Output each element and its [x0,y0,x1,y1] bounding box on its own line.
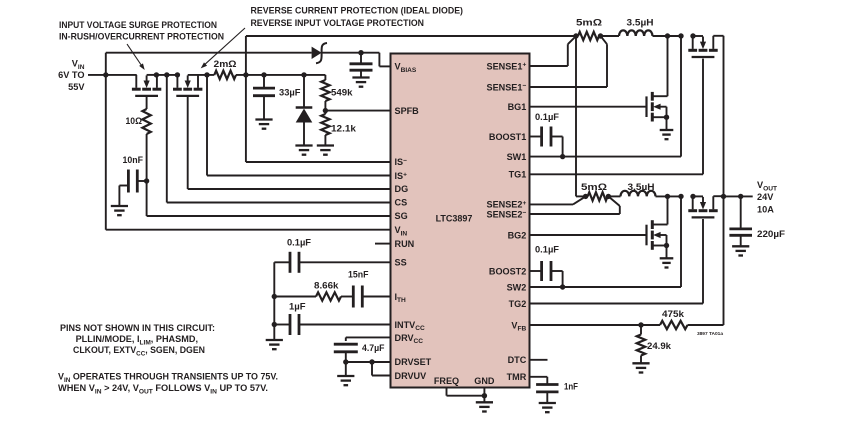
wire SENSE2+ kelvin [530,196,586,204]
svg-text:SENSE1−: SENSE1− [487,82,527,92]
wire IS+ net [207,75,391,176]
node sense resistor R6 left junction [573,33,578,38]
svg-text:5mΩ: 5mΩ [576,18,602,28]
svg-text:24.9k: 24.9k [647,341,672,351]
svg-text:5mΩ: 5mΩ [581,182,607,192]
transistor Q6 channel 2 synchronous FET [688,196,717,217]
node Q1 gate RC junction [144,178,149,183]
label R1 value 2mOhm [214,59,237,69]
wire GND pin to ground [483,388,485,403]
pin label DRVUV [395,371,427,381]
pin label SENSE2+ [487,200,527,210]
svg-text:SS: SS [395,257,407,267]
resistor R2 549k [321,75,329,111]
wire IS- net vertical+horizontal to pin [246,75,391,162]
pin label SS [395,257,407,267]
ground under C1 [255,120,272,129]
svg-text:2mΩ: 2mΩ [214,59,237,69]
svg-text:DTC: DTC [508,355,527,365]
ground under C11 [732,246,749,255]
wire DRVCC net [346,337,391,341]
svg-text:SW2: SW2 [507,282,527,292]
transistor Q3 channel 1 main switch [647,92,667,122]
resistor R5 8.66k [274,292,353,300]
capacitor C7 4.7uF [334,344,358,362]
svg-text:BOOST1: BOOST1 [489,132,526,142]
label R6 value 5mOhm [576,18,602,28]
ground under C3 [111,206,128,215]
node R6 right junction [598,33,603,38]
wire R7 to L2 [608,195,621,197]
ground under R9 [632,363,649,372]
annotation figure number 3897 TA01a [697,331,723,337]
transistor Q1 input protection NFET [132,75,161,96]
svg-text:REVERSE INPUT VOLTAGE PROTECTI: REVERSE INPUT VOLTAGE PROTECTION [251,18,425,28]
inductor L2 3.5uH channel 2 [621,191,656,197]
svg-text:LTC3897: LTC3897 [436,214,473,224]
IC U1 LTC3897 body [391,54,530,388]
label L2 value 3.5uH [628,182,655,192]
node SW1 pin junction [678,33,683,38]
resistor R9 24.9k feedback bottom [637,325,645,363]
capacitor C2 VBIAS bypass [350,53,373,77]
svg-text:FREQ: FREQ [434,376,459,386]
svg-text:SW1: SW1 [507,152,527,162]
wire L2 to SW2 node [656,195,704,197]
wire SENSE2- kelvin [530,196,620,214]
wire SG net [147,181,391,216]
label R8 value 475k [662,309,685,319]
resistor R3 12.1k [321,111,329,145]
svg-text:PINS NOT SHOWN IN THIS CIRCUIT: PINS NOT SHOWN IN THIS CIRCUIT: [60,323,215,333]
node Q2 drain junction [175,72,180,77]
pin label TG1 [509,170,527,180]
node 33uF junction [261,72,266,77]
wire R8 to VOUT rail [688,196,724,325]
wire SENSE1+ kelvin [530,36,576,66]
svg-text:IN-RUSH/OVERCURRENT PROTECTION: IN-RUSH/OVERCURRENT PROTECTION [59,32,224,42]
svg-text:549k: 549k [331,88,353,98]
node protected rail junction IS- [243,72,248,77]
label C8 value 1nF [564,382,578,392]
diode D2 input clamp [296,75,313,145]
svg-text:3.5µH: 3.5µH [627,18,654,28]
label R2 value 549k [331,88,353,98]
wire SS/ITH/INTVCC common vertical [273,262,275,339]
wire VIN pin net [106,75,391,230]
pin label ITH [395,292,407,304]
wire FREQ net [447,388,485,396]
node VIN input label [58,59,85,93]
svg-text:220µF: 220µF [757,229,785,239]
svg-text:DRVSET: DRVSET [395,357,432,367]
pin label CS [395,198,408,208]
label R4 value 10 Ohm [126,116,143,126]
svg-text:10A: 10A [757,205,774,215]
pin label DG [395,184,409,194]
capacitor C11 220uF output [729,196,752,246]
diode D1 ideal diode [312,43,327,63]
capacitor C10 0.1uF BOOST2 [530,261,563,287]
wire ch2 feed corner to R7 [576,195,586,197]
node junction VIN rail / VBIAS feed / VIN pin [103,72,108,77]
pin label SENSE1- [487,82,527,92]
node sense resistor R7 left junction [583,194,588,199]
svg-text:1µF: 1µF [289,302,306,312]
node Q5 source junction [664,243,669,248]
svg-text:TG1: TG1 [509,170,527,180]
pin label TMR [507,372,527,382]
node Q1 source junction [154,72,159,77]
wire Q2 source to 2mOhm [188,74,215,76]
svg-text:15nF: 15nF [348,270,369,280]
svg-text:TG2: TG2 [509,299,527,309]
annotation pointer arrow to Q1 [127,44,145,70]
wire L1 to SW1 node [653,35,704,37]
pin label SG [395,211,408,221]
svg-text:DG: DG [395,184,409,194]
wire DRVSET net [346,361,391,363]
wire BG1 net [530,106,647,108]
wire Q4 drain to VOUT rail [713,36,723,197]
transistor Q2 reverse input protection NFET [173,75,202,96]
wire ITH net [362,296,391,298]
pin label GND [474,376,495,386]
label R5 value 8.66k [314,281,339,291]
node SW2 Q6 source junction [690,194,695,199]
label C6 value 1uF [289,302,306,312]
node SW1 Q4 source junction [690,33,695,38]
node SPFB divider junction [323,108,328,113]
wire protected rail to clamp components [264,74,325,76]
pin stub RUN [375,243,391,245]
pin label DTC [508,355,527,365]
wire DG net from Q2 gate [188,97,391,189]
pin label INTVCC [395,320,425,332]
label U1 name LTC3897 [436,214,473,224]
label C1 value 33uF [279,88,301,98]
label C11 value 220uF [757,229,785,239]
node ITH junction [272,294,277,299]
label C4 value 0.1uF [287,238,311,248]
wire CS net [167,75,391,203]
svg-text:1nF: 1nF [564,382,578,392]
node GND junction [482,393,487,398]
capacitor C6 1uF [274,314,299,335]
wire TG2 net [530,219,704,304]
wire SENSE1- kelvin [530,36,608,87]
node SW1 drain junction [665,33,670,38]
svg-text:INPUT VOLTAGE SURGE PROTECTION: INPUT VOLTAGE SURGE PROTECTION [59,20,217,30]
pin label VIN [395,225,408,237]
svg-text:3897 TA01a: 3897 TA01a [697,331,723,337]
wire boost input feed rail (top) [246,36,576,75]
node Q3 source junction [664,115,669,120]
svg-text:8.66k: 8.66k [314,281,339,291]
svg-text:SENSE2−: SENSE2− [487,209,527,219]
transistor Q5 channel 2 main switch [647,220,667,250]
annotation: input protection labels [59,20,224,42]
svg-text:10Ω: 10Ω [126,116,143,126]
annotation: reverse protection labels [251,6,464,29]
node CS junction [164,72,169,77]
inductor L1 3.5uH channel 1 [619,30,653,36]
svg-text:BG1: BG1 [508,102,527,112]
wire DRVUV net [372,362,391,376]
wire ideal diode to VBIAS pin [322,53,391,67]
wire VFB net [530,324,661,326]
resistor R4 10 Ohm Q1 gate [142,97,150,181]
svg-text:CS: CS [395,198,408,208]
label R9 value 24.9k [647,341,672,351]
svg-text:10nF: 10nF [123,155,144,165]
svg-text:33µF: 33µF [279,88,301,98]
capacitor C5 15nF [353,286,362,308]
pin label BG1 [508,102,527,112]
wire VIN input stub [88,74,137,76]
wire BG2 net [530,234,647,236]
node clamp diode junction [301,72,306,77]
label R3 value 12.1k [331,124,357,134]
ground under common node [266,340,283,349]
label C5 value 15nF [348,270,369,280]
capacitor C1 33uF [253,75,275,119]
svg-text:0.1µF: 0.1µF [535,245,559,255]
svg-text:3.5µH: 3.5µH [628,182,655,192]
node R7 right junction [606,194,611,199]
wire VOUT node to terminal [724,195,753,197]
pin label SW2 [507,282,527,292]
pin label VFB [511,320,526,332]
label C3 value 10nF [123,155,144,165]
resistor R8 475k feedback top [660,321,687,329]
svg-text:4.7µF: 4.7µF [362,343,385,353]
wire Q3 drain to SW node [667,36,668,96]
svg-text:6V TO: 6V TO [58,70,84,80]
svg-text:RUN: RUN [395,239,415,249]
ground under Q3 [660,107,674,140]
pin label DRVCC [395,333,424,345]
ground at GND pin [476,402,493,411]
node SW2 drain junction [665,194,670,199]
capacitor C8 1nF [536,385,558,403]
wire Q6 drain to VOUT node [713,195,723,197]
wire SPFB net to pin [325,110,390,112]
pin label BG2 [508,230,527,240]
ground under C2 [352,78,369,87]
svg-text:SENSE2+: SENSE2+ [487,200,527,210]
pin stub DTC [530,359,548,361]
pin label IS- [395,157,408,167]
svg-text:REVERSE CURRENT PROTECTION (ID: REVERSE CURRENT PROTECTION (IDEAL DIODE) [251,6,464,16]
wire INTVCC net [299,324,391,326]
label C10 value 0.1uF [535,245,559,255]
label L1 value 3.5uH [627,18,654,28]
svg-text:12.1k: 12.1k [331,124,357,134]
resistor R7 5mOhm channel 2 [588,192,608,200]
svg-text:SG: SG [395,211,408,221]
node SW2 boost cap junction [560,284,565,289]
pin label SW1 [507,152,527,162]
node VOUT rail junction [721,194,726,199]
node COUT junction [738,194,743,199]
pin label IS+ [395,171,408,181]
svg-text:SPFB: SPFB [395,106,420,116]
pin label FREQ [434,376,459,386]
resistor R6 5mOhm channel 1 [578,32,599,40]
capacitor C4 0.1uF soft-start [274,252,299,273]
pin label TG2 [509,299,527,309]
wire SS net [299,261,391,263]
ground under R3 [317,146,334,155]
svg-text:0.1µF: 0.1µF [287,238,311,248]
wire SW2 net [530,196,682,287]
svg-text:24V: 24V [757,192,774,202]
node INTVCC junction [272,322,277,327]
ground under C7 [337,362,354,385]
node VFB divider junction [638,322,643,327]
pin label RUN [395,239,415,249]
ground under C8 [539,403,556,412]
transistor Q4 channel 1 synchronous FET [688,36,717,57]
pin label SPFB [395,106,420,116]
node SW2 pin junction [678,194,683,199]
pin label VBIAS [395,62,417,74]
svg-text:TMR: TMR [507,372,527,382]
label C7 value 4.7uF [362,343,385,353]
label R7 value 5mOhm [581,182,607,192]
annotation: pins not shown note [60,323,215,357]
wire Q1 source to Q2 drain rail segment [156,74,177,76]
pin label SENSE2- [487,209,527,219]
capacitor C3 10nF [119,170,146,206]
wire TG1 net [530,59,704,175]
wire 2mOhm to protected node [236,74,264,76]
node DRVCC cap bottom junction [343,359,348,364]
pin label DRVSET [395,357,432,367]
label C9 value 0.1uF [535,112,559,122]
svg-text:GND: GND [474,376,495,386]
annotation pointer arrow to Q2 [201,28,245,68]
annotation: VIN transient note [58,372,278,396]
node SW1 boost cap junction [560,154,565,159]
pin label BOOST2 [489,266,526,276]
node VBIAS capacitor junction [358,50,363,55]
wire SW1 net [530,36,682,157]
svg-text:0.1µF: 0.1µF [535,112,559,122]
wire channel 2 input feed [575,36,577,196]
pin label BOOST1 [489,132,526,142]
svg-text:BOOST2: BOOST2 [489,266,526,276]
pin label SENSE1+ [487,61,527,71]
ground under Q5 [660,235,674,268]
wire TMR net [530,377,548,385]
svg-text:55V: 55V [68,82,85,92]
node DRVSET/DRVUV junction [369,359,374,364]
svg-text:SENSE1+: SENSE1+ [487,61,527,71]
svg-text:BG2: BG2 [508,230,527,240]
resistor R1 2mOhm sense [214,71,236,79]
wire R6 to L1 [599,35,619,37]
node IS+ junction [204,72,209,77]
wire Q5 drain to SW node [667,196,668,224]
ground under D2 [295,146,312,155]
wire VBIAS feed from VIN (crosses IS- vertical) [106,53,312,75]
node VOUT output label [757,180,777,215]
svg-text:475k: 475k [662,309,685,319]
capacitor C9 0.1uF BOOST1 [530,127,563,157]
svg-text:DRVUV: DRVUV [395,371,427,381]
